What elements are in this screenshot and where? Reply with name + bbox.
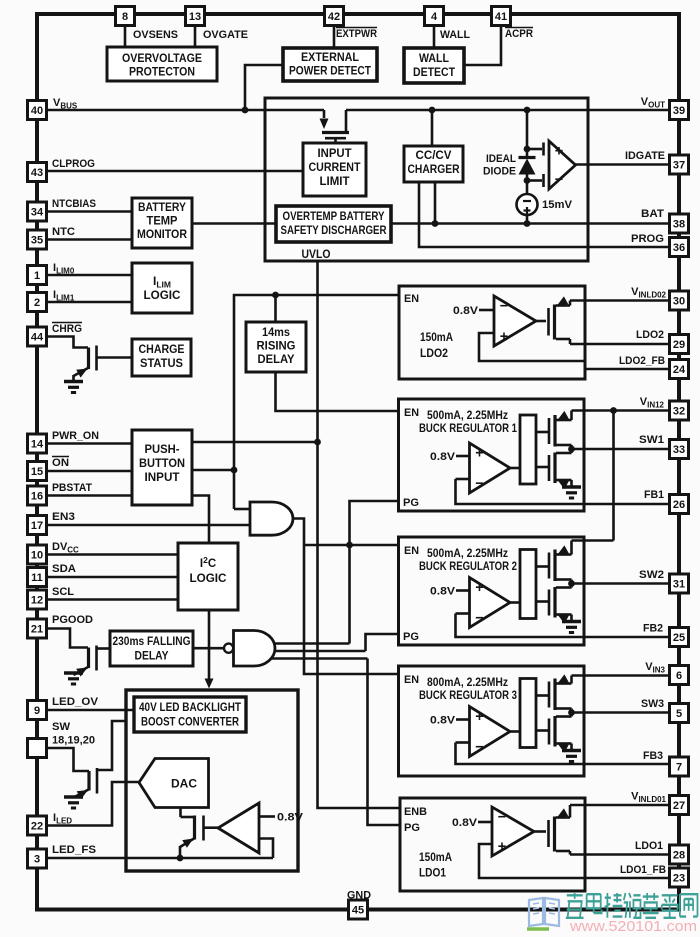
svg-text:EN: EN xyxy=(404,674,419,686)
wire CCCV to BAT xyxy=(434,182,437,224)
pin 7 xyxy=(670,757,689,776)
wire UVLO xyxy=(318,261,401,808)
svg-text:LDO1: LDO1 xyxy=(419,868,447,880)
pin 12 xyxy=(28,590,47,609)
label ILIM1 xyxy=(53,289,75,303)
svg-text:SW2: SW2 xyxy=(639,569,664,581)
pin 5 xyxy=(670,704,689,723)
svg-text:LDO1: LDO1 xyxy=(635,840,663,852)
wire BAT xyxy=(391,220,670,227)
svg-text:PG: PG xyxy=(403,631,419,643)
svg-text:FB2: FB2 xyxy=(643,623,663,635)
input current limit block xyxy=(303,143,366,196)
wire SCL xyxy=(47,598,179,601)
label LDO2 pin xyxy=(636,329,664,341)
label PWR_ON xyxy=(52,430,99,442)
label NTCBIAS xyxy=(52,198,96,210)
label LED_FS xyxy=(52,844,96,856)
svg-text:WALL: WALL xyxy=(440,29,470,41)
svg-text:14ms: 14ms xyxy=(262,327,290,339)
pin 38 xyxy=(670,214,689,233)
wire IDGATE xyxy=(576,163,670,166)
svg-text:SW1: SW1 xyxy=(639,434,664,446)
label ILED xyxy=(53,812,72,826)
svg-text:ON: ON xyxy=(52,457,69,469)
svg-text:22: 22 xyxy=(31,821,43,833)
svg-text:41: 41 xyxy=(495,11,507,23)
label PGOOD xyxy=(52,614,93,626)
wire buck3 SW xyxy=(572,711,670,714)
svg-text:+: + xyxy=(475,709,483,725)
svg-text:CC/CV: CC/CV xyxy=(416,150,452,162)
svg-text:500mA, 2.25MHz: 500mA, 2.25MHz xyxy=(427,548,508,560)
svg-text:CHARGE: CHARGE xyxy=(139,344,185,356)
svg-text:RISING: RISING xyxy=(257,341,296,353)
nand gate U3 xyxy=(193,631,275,667)
wire batt temp to overtemp xyxy=(192,222,276,225)
svg-text:32: 32 xyxy=(673,406,685,418)
label LDO2 0.8V xyxy=(453,305,494,317)
pin 4 xyxy=(425,7,444,26)
wire CLPROG xyxy=(47,170,304,173)
wire VINLD01 xyxy=(570,804,670,807)
svg-text:TEMP: TEMP xyxy=(147,216,178,228)
DAC xyxy=(139,759,209,808)
svg-text:150mA: 150mA xyxy=(419,852,452,864)
svg-text:21: 21 xyxy=(31,624,43,636)
svg-text:38: 38 xyxy=(673,219,685,231)
and gate U2 xyxy=(234,502,293,535)
wire CHRG xyxy=(47,337,89,348)
LDO1 block box xyxy=(400,798,585,891)
wire U6 out xyxy=(534,830,546,833)
label 0.8V boost xyxy=(259,812,304,824)
buck regulator 1 block xyxy=(399,399,670,511)
label OVSENS xyxy=(133,29,178,41)
wire PG LDO1 net xyxy=(262,659,400,826)
pin 15 xyxy=(28,462,47,481)
svg-text:25: 25 xyxy=(673,632,685,644)
svg-text:29: 29 xyxy=(673,339,685,351)
svg-text:35: 35 xyxy=(31,235,43,247)
push-button input block xyxy=(132,430,192,505)
svg-text:CHRG: CHRG xyxy=(52,323,82,335)
svg-text:40V LED BACKLIGHT: 40V LED BACKLIGHT xyxy=(139,702,241,714)
label SW1 xyxy=(639,434,664,446)
svg-text:24: 24 xyxy=(673,364,686,376)
svg-text:9: 9 xyxy=(34,705,40,717)
battery temp monitor block xyxy=(132,198,192,248)
svg-text:15mV: 15mV xyxy=(542,199,573,211)
label 15mV xyxy=(542,199,573,211)
watermark xyxy=(527,893,697,935)
svg-text:SCL: SCL xyxy=(52,586,74,598)
wire pin4 to WALL DETECT xyxy=(433,26,436,49)
wire LED_FS xyxy=(47,855,274,862)
wire VIN12 down xyxy=(612,411,615,541)
svg-text:INPUT: INPUT xyxy=(145,472,180,484)
pin 30 xyxy=(670,291,689,310)
label LDO1 150mA xyxy=(419,852,452,880)
ideal diode amp xyxy=(549,141,576,189)
pin 32 xyxy=(670,401,689,420)
svg-text:5: 5 xyxy=(676,708,682,720)
label PROG xyxy=(631,233,664,245)
svg-text:LDO2: LDO2 xyxy=(420,348,448,360)
svg-text:EXTPWR: EXTPWR xyxy=(336,28,377,40)
svg-text:OVGATE: OVGATE xyxy=(203,29,248,41)
svg-text:STATUS: STATUS xyxy=(140,358,183,370)
svg-text:8: 8 xyxy=(122,11,128,23)
ideal diode xyxy=(519,110,536,194)
svg-text:EXTERNAL: EXTERNAL xyxy=(301,52,359,64)
pin 34 xyxy=(28,202,47,221)
svg-text:16: 16 xyxy=(31,491,43,503)
wire buck1 SW xyxy=(572,448,670,451)
svg-text:6: 6 xyxy=(676,670,682,682)
label LDO1 pin xyxy=(635,840,663,852)
svg-text:1: 1 xyxy=(34,270,40,282)
svg-text:0.8V: 0.8V xyxy=(277,812,304,824)
svg-text:BOOST CONVERTER: BOOST CONVERTER xyxy=(141,717,240,729)
label LDO2 EN xyxy=(404,293,419,305)
wire buck3 VIN xyxy=(572,676,670,684)
svg-text:PBSTAT: PBSTAT xyxy=(52,482,92,494)
svg-text:230ms FALLING: 230ms FALLING xyxy=(113,636,191,648)
wire PB to UVLO xyxy=(192,439,321,446)
svg-text:UVLO: UVLO xyxy=(302,249,331,261)
svg-text:I2C: I2C xyxy=(200,555,216,570)
svg-text:−: − xyxy=(500,299,508,315)
svg-text:PROG: PROG xyxy=(631,233,664,245)
svg-text:SAFETY DISCHARGER: SAFETY DISCHARGER xyxy=(281,225,388,237)
wire LED_OV xyxy=(47,709,135,712)
wire CCCV top xyxy=(431,110,434,146)
svg-text:−: − xyxy=(475,476,483,492)
wire U4 gate xyxy=(204,826,219,829)
label VIN12 xyxy=(640,396,665,410)
buck regulator 3 block xyxy=(399,666,670,776)
svg-text:14: 14 xyxy=(31,439,44,451)
label UVLO xyxy=(302,249,331,261)
wire PGOOD xyxy=(47,629,89,648)
svg-text:0.8V: 0.8V xyxy=(452,817,478,829)
svg-text:0.8V: 0.8V xyxy=(430,451,456,463)
svg-text:LED_OV: LED_OV xyxy=(52,696,99,708)
pin 10 xyxy=(28,545,47,564)
pin 11 xyxy=(28,568,47,587)
wire PG2 net xyxy=(262,634,398,651)
label VINLD01 xyxy=(631,791,666,805)
boost converter box xyxy=(126,690,298,871)
label IDEAL DIODE xyxy=(483,153,516,178)
svg-text:BAT: BAT xyxy=(641,208,664,220)
wire Q2 gate xyxy=(97,647,111,650)
ideal diode amp taps xyxy=(524,143,544,188)
svg-text:+: + xyxy=(475,580,483,596)
wire Q1 gate xyxy=(97,356,133,359)
svg-text:SDA: SDA xyxy=(52,563,76,575)
svg-text:30: 30 xyxy=(673,296,685,308)
wire LDO1 fb xyxy=(479,844,670,878)
svg-text:SW: SW xyxy=(52,721,71,733)
wire ILIM0 xyxy=(47,274,133,277)
label ILIM0 xyxy=(53,262,75,276)
external power detect block xyxy=(283,48,377,81)
svg-text:ACPR: ACPR xyxy=(505,28,533,40)
label OVGATE xyxy=(203,29,248,41)
LDO2 amp U5 xyxy=(494,296,536,346)
15mV source xyxy=(517,194,538,215)
svg-text:13: 13 xyxy=(189,11,201,23)
label CLPROG xyxy=(52,158,95,170)
svg-text:DELAY: DELAY xyxy=(135,651,169,663)
ilim logic block xyxy=(132,263,192,313)
label GND xyxy=(347,890,371,902)
wire pin42 to EPD xyxy=(333,26,336,49)
svg-text:+: + xyxy=(475,446,483,462)
LDO2 pass FET Q5 xyxy=(549,296,571,344)
wire pin41 to wall detect xyxy=(464,26,501,66)
svg-text:45: 45 xyxy=(352,905,364,917)
svg-text:10: 10 xyxy=(31,550,43,562)
svg-text:18,19,20: 18,19,20 xyxy=(52,735,95,747)
label CHRG xyxy=(52,323,82,336)
wire EN3 xyxy=(47,524,251,527)
svg-text:31: 31 xyxy=(673,579,685,591)
pin 39 xyxy=(670,101,689,120)
label VIN3 xyxy=(645,661,665,675)
i2c logic block xyxy=(178,543,238,610)
wire VINLD02 xyxy=(570,299,670,302)
pin 22 xyxy=(28,816,47,835)
svg-text:INPUT: INPUT xyxy=(318,148,352,160)
wire PWR_ON xyxy=(47,442,133,445)
svg-text:FB3: FB3 xyxy=(643,750,663,762)
pin 40 xyxy=(28,101,47,120)
label buck2 PG xyxy=(403,631,419,643)
pin 16 xyxy=(28,486,47,505)
pin SW 18,19,20 xyxy=(28,739,47,758)
transistor Q2 PGOOD xyxy=(64,646,97,685)
pin 31 xyxy=(670,574,689,593)
wire NTC xyxy=(47,238,133,241)
pin 13 xyxy=(186,7,205,26)
svg-text:PUSH-: PUSH- xyxy=(145,444,180,456)
wire DVCC xyxy=(47,553,179,556)
svg-text:LOGIC: LOGIC xyxy=(144,290,181,302)
pin 41 xyxy=(492,7,511,26)
svg-text:EN: EN xyxy=(404,545,419,557)
pin 36 xyxy=(670,238,689,257)
svg-text:LDO2_FB: LDO2_FB xyxy=(619,355,665,367)
40V LED backlight boost converter title xyxy=(134,697,246,732)
svg-text:IDEAL: IDEAL xyxy=(486,153,516,165)
LED driver NMOS Q4 xyxy=(180,808,204,859)
svg-text:LED_FS: LED_FS xyxy=(52,844,96,856)
LED amp U4 xyxy=(218,803,273,858)
svg-text:12: 12 xyxy=(31,595,43,607)
label LDO1_FB xyxy=(620,864,666,876)
transistor Q3 SW xyxy=(64,768,97,808)
label LED_OV xyxy=(52,696,99,708)
label WALL xyxy=(440,29,470,41)
LDO2 block box xyxy=(399,286,585,379)
label buck1 PG xyxy=(403,497,419,509)
svg-text:7: 7 xyxy=(676,762,682,774)
charge status block xyxy=(132,339,191,376)
svg-text:2: 2 xyxy=(34,297,40,309)
input current limit PMOS xyxy=(320,110,350,143)
svg-text:NTCBIAS: NTCBIAS xyxy=(52,198,96,210)
wire buck2 VIN xyxy=(572,541,614,555)
wire ON xyxy=(47,470,133,473)
label SDA xyxy=(52,563,76,575)
label FB1 xyxy=(644,489,664,501)
pin 33 xyxy=(670,440,689,459)
svg-text:34: 34 xyxy=(31,207,44,219)
wire EPD to VBUS xyxy=(245,65,283,110)
svg-text:BUCK REGULATOR 3: BUCK REGULATOR 3 xyxy=(419,690,517,702)
label VBUS xyxy=(53,97,78,111)
svg-text:BUCK REGULATOR 2: BUCK REGULATOR 2 xyxy=(419,561,517,573)
svg-text:23: 23 xyxy=(673,873,685,885)
label VOUT xyxy=(641,96,665,110)
svg-text:DETECT: DETECT xyxy=(413,67,455,79)
label LDO1 ENB xyxy=(404,806,427,818)
transistor Q1 CHRG xyxy=(64,346,97,393)
pin 1 xyxy=(28,266,47,285)
svg-text:39: 39 xyxy=(673,105,685,117)
label FB3 xyxy=(643,750,663,762)
svg-text:500mA, 2.25MHz: 500mA, 2.25MHz xyxy=(427,410,508,422)
wire 15mV to BAT xyxy=(526,215,529,224)
svg-text:40: 40 xyxy=(31,105,43,117)
label ON xyxy=(52,457,69,470)
svg-text:OVERTEMP BATTERY: OVERTEMP BATTERY xyxy=(283,211,385,223)
label SW2 xyxy=(639,569,664,581)
svg-text:BUTTON: BUTTON xyxy=(139,458,185,470)
pin 44 xyxy=(28,327,47,346)
label LDO1 PG xyxy=(404,822,420,834)
pin 21 xyxy=(28,619,47,638)
pin 8 xyxy=(116,7,135,26)
svg-text:+: + xyxy=(500,329,508,345)
svg-text:26: 26 xyxy=(673,499,685,511)
svg-text:−: − xyxy=(498,810,506,826)
svg-text:BATTERY: BATTERY xyxy=(138,202,186,214)
svg-text:PG: PG xyxy=(404,822,420,834)
wall detect block xyxy=(404,48,464,83)
svg-text:42: 42 xyxy=(328,11,340,23)
svg-text:36: 36 xyxy=(673,242,685,254)
buck regulator 2 block xyxy=(399,537,670,645)
svg-text:GND: GND xyxy=(347,890,371,902)
svg-text:0.8V: 0.8V xyxy=(430,715,456,727)
svg-text:DIODE: DIODE xyxy=(483,166,516,178)
label LDO2_FB xyxy=(619,355,665,367)
wire SDA xyxy=(47,576,179,579)
svg-text:0.8V: 0.8V xyxy=(430,586,456,598)
svg-text:CHARGER: CHARGER xyxy=(408,164,461,176)
wire PROG xyxy=(419,182,670,247)
pin 17 xyxy=(28,516,47,535)
svg-text:ENB: ENB xyxy=(404,806,427,818)
pin 9 xyxy=(28,701,47,720)
wire PG1 net xyxy=(262,501,399,644)
svg-text:4: 4 xyxy=(431,11,438,23)
pin 24 xyxy=(670,360,689,379)
svg-text:WALL: WALL xyxy=(419,53,449,65)
svg-text:PROTECTON: PROTECTON xyxy=(129,67,195,79)
wire PB output xyxy=(192,292,399,509)
svg-text:POWER DETECT: POWER DETECT xyxy=(289,66,371,78)
label EXTPWR xyxy=(336,28,377,41)
svg-text:DAC: DAC xyxy=(171,779,197,791)
svg-text:EN: EN xyxy=(404,293,419,305)
pin 25 xyxy=(670,628,689,647)
pin 45 xyxy=(349,900,368,919)
label EN3 xyxy=(52,511,75,523)
wire Q3 gate xyxy=(97,721,126,770)
svg-text:33: 33 xyxy=(673,444,685,456)
wire pin8 to OVP xyxy=(124,26,127,48)
wire PBSTAT xyxy=(47,494,133,497)
label FB2 xyxy=(643,623,663,635)
svg-text:−: − xyxy=(555,172,563,188)
14ms rising delay block xyxy=(246,322,306,372)
label SW 18 19 20 xyxy=(52,721,95,747)
svg-text:CURRENT: CURRENT xyxy=(309,162,361,174)
pin 26 xyxy=(670,495,689,514)
LDO1 pass FET Q6 xyxy=(549,805,571,855)
label NTC xyxy=(52,226,75,238)
svg-text:www.520101.com: www.520101.com xyxy=(569,918,697,935)
svg-text:BUCK REGULATOR 1: BUCK REGULATOR 1 xyxy=(419,423,517,435)
svg-text:LDO1_FB: LDO1_FB xyxy=(620,864,666,876)
svg-text:+: + xyxy=(555,144,563,160)
svg-text:DELAY: DELAY xyxy=(258,354,295,366)
svg-text:FB1: FB1 xyxy=(644,489,664,501)
wire LDO2 fb xyxy=(479,333,670,369)
wire pin13 to OVP xyxy=(194,26,197,48)
label SW3 xyxy=(641,698,664,710)
wire I2C to boost xyxy=(205,610,214,689)
svg-text:−: − xyxy=(475,740,483,756)
pin 29 xyxy=(670,335,689,354)
svg-text:EN: EN xyxy=(404,407,419,419)
label VINLD02 xyxy=(631,286,666,300)
pin 14 xyxy=(28,434,47,453)
pin 37 xyxy=(670,155,689,174)
svg-text:OVSENS: OVSENS xyxy=(133,29,178,41)
svg-text:OVERVOLTAGE: OVERVOLTAGE xyxy=(122,53,202,65)
wire buck1 VIN xyxy=(572,407,670,420)
charger block box xyxy=(265,98,588,261)
svg-text:PG: PG xyxy=(403,497,419,509)
wire ILED xyxy=(47,782,140,826)
wire NTCBIAS xyxy=(47,210,133,213)
svg-text:PGOOD: PGOOD xyxy=(52,614,93,626)
svg-text:3: 3 xyxy=(34,854,40,866)
overvoltage protection block xyxy=(107,47,217,81)
wire buck2 SW xyxy=(572,582,670,585)
wire LDO2 out xyxy=(570,343,670,346)
pin 27 xyxy=(670,796,689,815)
overtemp battery safety discharger block xyxy=(276,206,391,242)
pin 6 xyxy=(670,666,689,685)
svg-text:800mA, 2.25MHz: 800mA, 2.25MHz xyxy=(427,677,508,689)
